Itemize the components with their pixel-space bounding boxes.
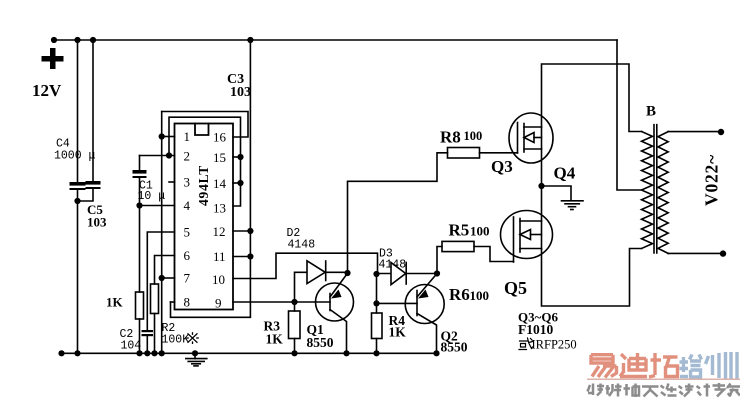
node rail gnd column — [159, 350, 165, 356]
svg-text:11: 11 — [213, 249, 226, 264]
resistor R4 — [372, 303, 383, 353]
svg-text:100K: 100K — [162, 334, 190, 347]
wire Q1 emitter to R8 — [348, 153, 448, 273]
wire bottom rail — [62, 352, 437, 354]
wire top +12V rail — [54, 39, 617, 41]
node 1K rail — [136, 350, 142, 356]
ground main below rail — [186, 353, 207, 366]
svg-text:B: B — [646, 104, 656, 120]
node C4 top — [74, 37, 80, 43]
svg-text:Q4: Q4 — [554, 164, 576, 183]
node gnd rail — [192, 350, 198, 356]
wire pin1 — [162, 136, 175, 138]
svg-text:7: 7 — [184, 271, 191, 286]
pin numbers left — [184, 129, 191, 310]
wire pin7 — [162, 277, 175, 279]
wire 12V rail down to transformer center tap — [617, 40, 642, 190]
capacitor C5 — [78, 40, 101, 201]
mosfet Q5 — [501, 211, 553, 263]
node pin14 — [237, 180, 243, 186]
node output bottom terminal — [720, 250, 726, 256]
svg-text:15: 15 — [213, 150, 226, 165]
node Q1 collector rail — [343, 350, 349, 356]
pin numbers right — [212, 130, 227, 311]
node R3/D2 junction — [291, 299, 297, 305]
wire pin15 — [233, 156, 241, 158]
svg-text:8: 8 — [184, 295, 191, 310]
node C3 line top — [247, 37, 253, 43]
node C2 rail — [144, 350, 150, 356]
capacitor C1 — [133, 156, 147, 206]
svg-text:IRFP250: IRFP250 — [532, 338, 577, 352]
svg-text:12: 12 — [213, 224, 226, 239]
svg-text:104: 104 — [121, 340, 142, 353]
node R4 rail — [373, 350, 379, 356]
svg-text:1K: 1K — [389, 325, 407, 340]
node Q2 base / R4 — [373, 300, 379, 306]
wire ground column pin1/pin7 to rail — [161, 112, 163, 354]
svg-text:8550: 8550 — [307, 335, 334, 350]
node pin7 — [159, 275, 165, 281]
svg-text:5: 5 — [184, 225, 191, 240]
svg-text:14: 14 — [213, 176, 227, 191]
capacitor C4 — [70, 40, 86, 353]
node Q1 emitter / D2 cathode — [344, 270, 350, 276]
node bottom-left terminal — [58, 350, 64, 356]
wire Q3 source to Q5 drain — [541, 149, 543, 221]
diode D2 — [295, 261, 348, 302]
node D3 cathode / Q2 emitter — [434, 270, 440, 276]
wire C3 line from rail to below IC — [171, 40, 251, 317]
wire secondary top to output — [668, 131, 721, 133]
wire pin10 to D3 anode — [233, 253, 378, 278]
wire pin12 — [233, 230, 250, 232]
transformer primary winding — [642, 132, 653, 249]
mosfet Q3 — [509, 113, 553, 163]
node top-left terminal — [51, 37, 57, 43]
reference mark — [187, 333, 198, 344]
wire pin11 — [233, 256, 250, 258]
svg-text:1K: 1K — [266, 332, 284, 347]
node pin11 — [247, 253, 253, 259]
svg-text:8550: 8550 — [441, 340, 468, 355]
svg-text:4148: 4148 — [288, 239, 316, 252]
svg-text:494LT: 494LT — [196, 165, 211, 206]
wire R5 left to D3 cathode node — [437, 247, 442, 274]
svg-text:10 μ: 10 μ — [138, 190, 166, 203]
transformer B core — [654, 125, 657, 253]
svg-text:V022~: V022~ — [702, 154, 722, 206]
wire pin8 — [171, 301, 175, 303]
svg-text:F1010: F1010 — [518, 322, 553, 337]
node C4 bottom rail — [74, 350, 80, 356]
battery plus symbol — [42, 48, 64, 69]
svg-text:Q5: Q5 — [504, 278, 527, 298]
transistor Q2 — [377, 274, 445, 354]
svg-text:10: 10 — [212, 272, 225, 287]
wire pin4 — [140, 205, 175, 207]
wire Q5 source to transformer primary bottom — [542, 249, 642, 307]
node output top terminal — [718, 129, 724, 135]
svg-text:R5: R5 — [449, 221, 470, 240]
svg-text:100: 100 — [464, 129, 483, 143]
svg-text:2: 2 — [184, 149, 191, 164]
transistor Q1 — [316, 273, 354, 353]
wire pin2 — [140, 155, 175, 157]
wire D3 anode down to Q2 base node — [376, 274, 378, 303]
svg-text:100: 100 — [470, 288, 490, 303]
node C5 top — [90, 37, 96, 43]
node C4/C5 junction — [74, 198, 80, 204]
resistor 1K left — [136, 206, 144, 354]
svg-text:103: 103 — [87, 215, 107, 230]
svg-text:1K: 1K — [106, 295, 124, 310]
watermark underline — [587, 378, 740, 380]
svg-text:1: 1 — [184, 129, 191, 144]
svg-text:Q3: Q3 — [491, 157, 513, 176]
svg-text:103: 103 — [230, 85, 251, 100]
wire R8 to Q3 gate — [480, 152, 518, 154]
capacitor C2 — [142, 330, 154, 353]
wire pin9 to Q1 base — [233, 301, 330, 303]
svg-text:R8: R8 — [440, 128, 461, 147]
svg-text:6: 6 — [184, 248, 191, 263]
transformer secondary winding — [658, 132, 668, 254]
svg-text:9: 9 — [215, 296, 222, 311]
node R2 rail — [151, 350, 157, 356]
node Q2 collector rail — [433, 350, 439, 356]
svg-text:13: 13 — [213, 201, 226, 216]
node R3 rail — [291, 350, 297, 356]
svg-text:12V: 12V — [32, 81, 62, 100]
svg-text:16: 16 — [213, 130, 227, 145]
diode D3 — [377, 263, 438, 285]
resistor R8 — [448, 148, 480, 159]
resistor R3 — [289, 302, 301, 353]
ground Q4 — [562, 201, 584, 210]
svg-text:4148: 4148 — [379, 259, 407, 272]
wire Q4 branch — [542, 186, 572, 200]
IC U1 TL494 body — [175, 124, 234, 310]
svg-text:100: 100 — [470, 224, 490, 239]
svg-text:3: 3 — [184, 175, 191, 190]
node D3 anode — [373, 271, 379, 277]
watermark — [587, 352, 740, 397]
node pin4/C1 — [136, 202, 142, 208]
wire pin5 to C2 — [147, 232, 174, 330]
wire R5 right to Q5 gate — [474, 247, 514, 262]
node pin2 — [166, 152, 172, 158]
wire net pin1 to pin16 over top — [162, 112, 248, 138]
node pin15 — [237, 154, 243, 160]
resistor R5 — [442, 241, 474, 251]
wire Q3 drain to transformer primary top — [542, 64, 642, 132]
svg-text:4: 4 — [184, 198, 191, 213]
resistor R2 — [151, 284, 159, 353]
wire pin14 — [233, 182, 241, 184]
node pin1 — [159, 133, 165, 139]
wire pin3 stub — [169, 181, 175, 183]
svg-text:R6: R6 — [449, 285, 470, 304]
glyph huo — [519, 338, 533, 350]
node Q3 source / Q4 branch — [538, 183, 544, 189]
wire secondary bottom to output — [668, 252, 723, 254]
node pin12 — [247, 228, 253, 234]
wire pin6 to R2 — [155, 256, 175, 285]
wire net pin2 over top to pins 15,14,13 — [169, 117, 241, 206]
svg-text:1000 μ: 1000 μ — [54, 150, 96, 163]
